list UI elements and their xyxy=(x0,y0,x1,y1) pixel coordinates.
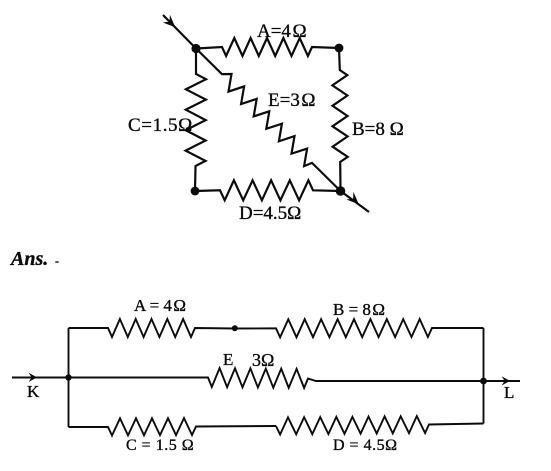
left bus (bottom figure) xyxy=(68,328,70,427)
resistor C bottom + wire xyxy=(69,418,277,435)
label Ans. xyxy=(11,248,48,271)
label C = 1.5 ohm bottom xyxy=(126,437,194,455)
resistor E bottom (middle branch) xyxy=(69,368,484,388)
node top-right xyxy=(335,44,344,53)
arrowhead output xyxy=(346,192,359,205)
node top-left xyxy=(191,44,200,53)
label E bottom xyxy=(223,350,233,370)
label K xyxy=(27,382,39,402)
label 3 ohm bottom xyxy=(252,350,274,371)
node K junction xyxy=(65,374,71,380)
resistor A bottom + wire xyxy=(69,319,235,337)
label B=8ohm top xyxy=(352,119,404,141)
wire input lead top-left xyxy=(163,15,196,49)
resistor D (bottom edge) xyxy=(195,180,341,200)
label B = 8 ohm bottom xyxy=(333,300,385,320)
arrowhead K xyxy=(29,373,37,382)
resistor B (right edge) xyxy=(332,48,347,191)
label D = 4.5 ohm bottom xyxy=(333,437,397,455)
speck after Ans. xyxy=(55,261,59,263)
node bottom-right xyxy=(336,186,346,196)
label L xyxy=(504,383,514,403)
wire output lead bottom-right xyxy=(341,191,370,212)
resistor D bottom + wire xyxy=(276,416,484,434)
wire K lead xyxy=(12,377,69,379)
wire L lead xyxy=(484,380,521,382)
resistor E (diagonal) xyxy=(196,49,341,192)
label E=3ohm top xyxy=(268,90,316,112)
arrowhead L xyxy=(502,376,510,385)
label D=4.5ohm top xyxy=(239,203,301,225)
label C=1.5ohm top xyxy=(128,115,193,137)
label A=4ohm top xyxy=(257,21,307,43)
resistor B bottom + wire xyxy=(235,319,484,337)
resistor A (top edge) xyxy=(196,38,339,56)
node A-B junction xyxy=(232,325,238,331)
right bus (bottom figure) xyxy=(483,328,485,424)
arrowhead input xyxy=(163,15,176,28)
node L junction xyxy=(480,378,487,385)
resistor C (left edge) xyxy=(186,49,206,192)
node bottom-left xyxy=(191,187,200,196)
label A = 4 ohm bottom xyxy=(134,296,186,316)
